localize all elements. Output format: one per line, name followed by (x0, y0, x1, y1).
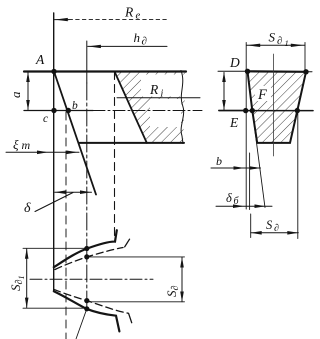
svg-text:R: R (149, 82, 159, 97)
svg-text:D: D (229, 55, 240, 70)
svg-text:c: c (43, 113, 48, 125)
svg-text:A: A (35, 52, 45, 67)
svg-text:E: E (229, 115, 239, 130)
svg-text:S∂1: S∂1 (8, 276, 26, 291)
svg-text:δ: δ (226, 191, 232, 205)
svg-text:δ: δ (24, 201, 31, 216)
svg-text:S: S (266, 218, 273, 232)
svg-text:∂: ∂ (274, 223, 279, 234)
svg-text:i: i (161, 89, 164, 100)
svg-text:S: S (269, 30, 276, 45)
svg-text:∂: ∂ (142, 36, 147, 48)
svg-text:1: 1 (285, 38, 289, 48)
svg-text:h: h (134, 30, 141, 45)
svg-text:F: F (257, 87, 267, 103)
svg-text:a: a (8, 91, 23, 98)
svg-text:ξ: ξ (13, 137, 19, 152)
svg-text:m: m (22, 138, 31, 152)
svg-text:b: b (72, 100, 78, 112)
svg-text:R: R (124, 5, 134, 20)
svg-text:b: b (216, 154, 222, 168)
svg-text:∂: ∂ (277, 36, 282, 47)
svg-text:S∂: S∂ (164, 286, 181, 298)
svg-text:e: e (136, 11, 141, 22)
